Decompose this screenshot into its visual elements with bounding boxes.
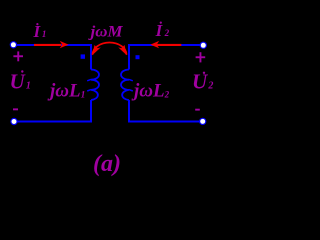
svg-text:(a): (a): [93, 151, 121, 177]
svg-text:jωL1: jωL1: [47, 80, 85, 101]
svg-text:jωL2: jωL2: [131, 80, 170, 101]
svg-text:jωM: jωM: [87, 24, 123, 41]
